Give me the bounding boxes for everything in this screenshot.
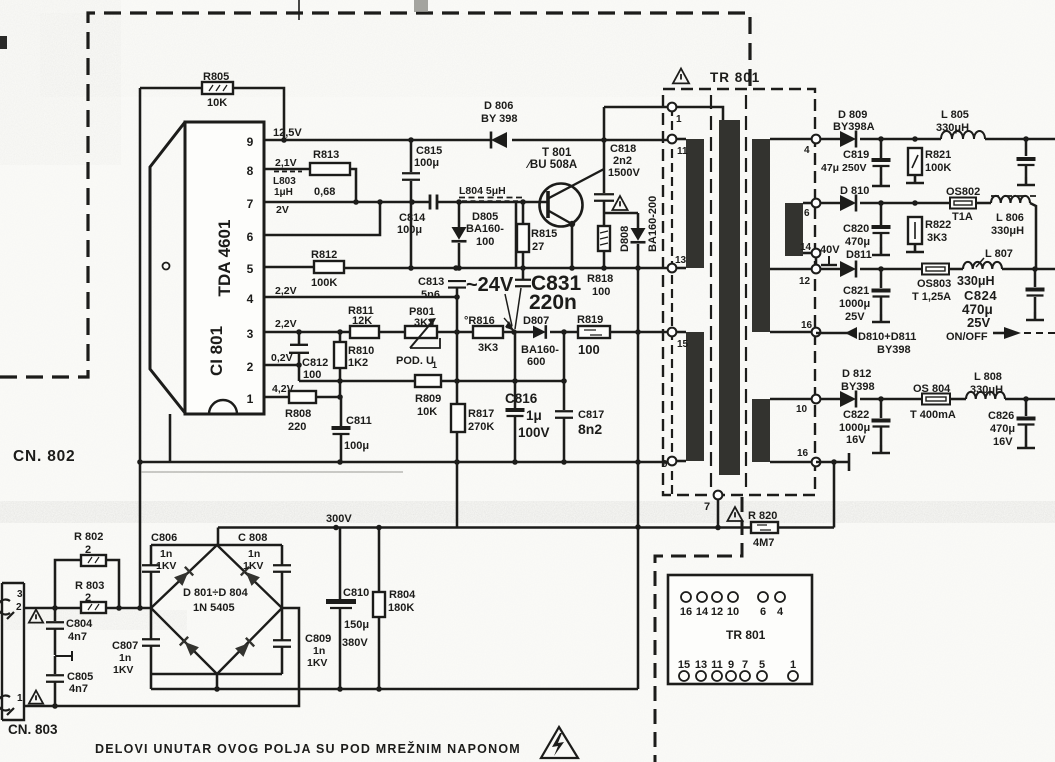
wire pin4	[264, 296, 457, 299]
svg-text:BY398A: BY398A	[833, 121, 875, 133]
svg-text:7: 7	[704, 501, 710, 513]
svg-text:2,2V: 2,2V	[275, 318, 297, 330]
svg-text:12: 12	[711, 606, 723, 618]
wire pin5 emitter rail	[264, 266, 314, 269]
resistor R817 270K	[451, 404, 465, 432]
svg-text:100: 100	[303, 369, 321, 381]
svg-text:9: 9	[662, 459, 668, 470]
svg-text:2: 2	[247, 360, 254, 374]
svg-text:L804 5μH: L804 5μH	[459, 185, 506, 197]
svg-text:5: 5	[759, 659, 765, 671]
svg-text:11: 11	[677, 146, 688, 157]
capacitor C820 470u	[880, 203, 883, 225]
junction	[878, 136, 884, 142]
wire emitter down	[571, 224, 574, 268]
fuse OS803 T1,25A	[922, 264, 949, 275]
wire feedback rail	[299, 380, 415, 383]
svg-text:1: 1	[432, 360, 437, 370]
svg-text:1KV: 1KV	[156, 560, 176, 572]
transformer left pin line dashed	[671, 107, 673, 495]
junction	[353, 199, 359, 205]
svg-text:150μ: 150μ	[344, 619, 369, 631]
svg-text:L 808: L 808	[974, 371, 1002, 383]
wire node14 to node12	[815, 253, 818, 269]
resistor R809 10K	[415, 375, 441, 387]
svg-text:T 1,25A: T 1,25A	[912, 291, 951, 303]
wire bridge bottom link	[151, 673, 282, 676]
svg-text:7: 7	[247, 197, 254, 211]
svg-text:4: 4	[247, 292, 254, 306]
svg-text:R805: R805	[203, 71, 229, 83]
svg-text:C813: C813	[418, 276, 444, 288]
svg-text:100K: 100K	[925, 162, 951, 174]
svg-text:100V: 100V	[518, 425, 550, 440]
diode D810	[820, 202, 840, 205]
svg-text:100μ: 100μ	[344, 440, 369, 452]
svg-text:CN. 803: CN. 803	[8, 722, 58, 737]
wire pin6	[264, 202, 380, 235]
svg-text:BA160-: BA160-	[466, 223, 504, 235]
svg-text:C824: C824	[964, 288, 997, 303]
wire pin9 12,5V rail	[264, 139, 491, 142]
svg-text:470μ: 470μ	[990, 423, 1015, 435]
svg-text:C815: C815	[416, 145, 442, 157]
wire mains input live	[24, 607, 81, 610]
svg-text:L 805: L 805	[941, 109, 969, 121]
resistor R811 12K	[350, 326, 379, 338]
svg-text:180K: 180K	[388, 602, 414, 614]
inductor L808 330uH	[966, 392, 1005, 399]
svg-text:12K: 12K	[352, 315, 372, 327]
svg-text:8n2: 8n2	[578, 421, 602, 437]
svg-text:100K: 100K	[311, 277, 337, 289]
wire collector node vertical	[603, 107, 606, 193]
svg-text:°R816: °R816	[464, 315, 495, 327]
bridge diode lower-right	[235, 638, 254, 657]
svg-text:R808: R808	[285, 408, 311, 420]
junction	[454, 378, 460, 384]
resistor R802 2	[55, 560, 81, 608]
svg-text:1KV: 1KV	[113, 664, 133, 676]
junction	[337, 378, 343, 384]
svg-text:25V: 25V	[845, 311, 865, 323]
svg-text:T1A: T1A	[952, 211, 973, 223]
svg-text:R813: R813	[313, 149, 339, 161]
junction	[281, 137, 287, 143]
svg-text:220: 220	[288, 421, 306, 433]
dashed border bottom segment	[655, 497, 742, 762]
capacitor C805 4n7	[54, 656, 57, 674]
resistor R816 3K3	[473, 326, 503, 338]
fuse OS804 T400mA	[922, 394, 950, 405]
svg-text:330μH: 330μH	[991, 225, 1024, 237]
bridge diode upper-right	[241, 567, 260, 586]
svg-text:2V: 2V	[276, 204, 289, 216]
svg-text:C821: C821	[843, 285, 869, 297]
junction	[408, 265, 414, 271]
svg-text:C811: C811	[346, 415, 372, 427]
warning triangle	[29, 610, 43, 623]
winding primary 15-9	[686, 332, 704, 461]
svg-text:1n: 1n	[119, 652, 131, 664]
scan noise band	[0, 503, 1055, 521]
diode D805 BA160-100 with box	[458, 202, 461, 227]
bridge diode upper-left	[174, 567, 193, 586]
resistor R812	[314, 261, 344, 273]
resistor R822 3K3	[908, 217, 922, 244]
resistor R813	[310, 163, 350, 175]
svg-text:3K3: 3K3	[478, 342, 498, 354]
svg-text:14: 14	[800, 242, 812, 253]
capacitor C812 100	[298, 332, 301, 344]
capacitor C808 1n 1KV	[281, 572, 284, 608]
warning triangle	[727, 507, 742, 521]
svg-text:T 400mA: T 400mA	[910, 409, 956, 421]
svg-text:2,2V: 2,2V	[275, 285, 297, 297]
svg-text:D811: D811	[846, 249, 872, 261]
capacitor C811 100u	[340, 397, 343, 426]
svg-text:3K3: 3K3	[414, 317, 434, 329]
svg-text:5: 5	[247, 262, 254, 276]
diode D811	[820, 268, 840, 271]
transformer pin nodes	[668, 103, 677, 112]
svg-text:270K: 270K	[468, 421, 494, 433]
warning triangle	[29, 691, 43, 704]
svg-text:11: 11	[711, 659, 723, 671]
svg-text:9: 9	[728, 659, 734, 671]
inductor L804 dashes	[459, 197, 525, 199]
wire ground rail	[140, 461, 672, 464]
junction	[52, 605, 58, 611]
svg-text:POD. U: POD. U	[396, 355, 434, 367]
winding secondary 6-14	[785, 203, 803, 256]
svg-text:C810: C810	[343, 587, 369, 599]
capacitor C823 output	[1025, 139, 1028, 156]
junction	[454, 294, 460, 300]
svg-text:2: 2	[85, 544, 91, 556]
resistor R818 100	[598, 226, 610, 251]
resistor R810 1K2	[339, 332, 342, 342]
svg-text:D 806: D 806	[484, 100, 513, 112]
svg-text:OS 804: OS 804	[913, 383, 951, 395]
svg-text:C805: C805	[67, 671, 93, 683]
svg-text:27: 27	[532, 241, 544, 253]
svg-text:1: 1	[247, 392, 254, 406]
svg-text:ON/OFF: ON/OFF	[946, 331, 988, 343]
svg-text:3: 3	[247, 327, 254, 341]
svg-text:100μ: 100μ	[414, 157, 439, 169]
mains-area dashed border	[0, 13, 750, 377]
svg-text:7: 7	[742, 659, 748, 671]
svg-text:BA160-200: BA160-200	[647, 196, 659, 252]
capacitor C821 1000u 25V	[880, 269, 883, 288]
svg-text:330μH: 330μH	[957, 274, 995, 288]
wire pin16 stub with arrow	[816, 332, 856, 335]
wire left vertical rail	[139, 88, 142, 608]
inductor L807 330uH	[963, 262, 1002, 269]
svg-text:1n: 1n	[160, 548, 172, 560]
capacitor C806 1n 1KV	[150, 572, 153, 608]
wire IC bottom to ground rail	[169, 414, 172, 462]
capacitor C816 1u 100V	[514, 332, 517, 408]
svg-text:1n: 1n	[313, 645, 325, 657]
chassis tick	[55, 655, 72, 657]
svg-text:1000μ: 1000μ	[839, 298, 870, 310]
svg-text:C804: C804	[66, 618, 93, 630]
resistor R804 180K	[378, 528, 381, 593]
svg-text:OS802: OS802	[946, 186, 980, 198]
transformer TR801 dashed box	[663, 89, 815, 495]
wire pin7 rail	[264, 201, 430, 204]
svg-text:10: 10	[727, 606, 739, 618]
transistor Q T801 BU508A	[540, 184, 583, 227]
svg-text:C820: C820	[843, 223, 869, 235]
resistor R820 4M7	[751, 522, 778, 533]
wire pin8	[264, 168, 310, 171]
svg-text:6: 6	[247, 230, 254, 244]
svg-text:C809: C809	[305, 633, 331, 645]
svg-text:2n2: 2n2	[613, 155, 632, 167]
svg-text:BA160-: BA160-	[521, 344, 559, 356]
capacitor C804 4n7	[54, 608, 57, 621]
junction	[333, 525, 339, 531]
svg-text:1K2: 1K2	[348, 357, 368, 369]
svg-text:C806: C806	[151, 532, 177, 544]
svg-text:40V: 40V	[820, 244, 840, 256]
svg-text:100: 100	[476, 236, 494, 248]
svg-text:0,68: 0,68	[314, 186, 335, 198]
svg-text:2: 2	[85, 592, 91, 604]
diode D806 BY398	[491, 132, 507, 148]
svg-text:CN. 802: CN. 802	[13, 448, 75, 465]
inductor L805 330uH	[941, 131, 985, 139]
svg-text:100: 100	[592, 286, 610, 298]
svg-text:CI 801: CI 801	[207, 326, 226, 376]
transformer core dashed lines	[710, 95, 712, 490]
svg-text:330μH: 330μH	[970, 384, 1003, 396]
resistor R819 100	[578, 326, 610, 338]
capacitor C810 150u 380V	[339, 528, 342, 600]
diode D807 BA160-600	[533, 326, 546, 339]
capacitor C826 470u 16V	[1025, 399, 1028, 416]
svg-text:13: 13	[675, 255, 687, 266]
svg-text:6: 6	[804, 208, 810, 219]
wire mains input neutral	[24, 608, 299, 706]
svg-text:3K3: 3K3	[927, 232, 947, 244]
capacitor C831 220n	[522, 268, 525, 279]
svg-text:16V: 16V	[846, 434, 866, 446]
svg-text:R 820: R 820	[748, 510, 777, 522]
junction	[52, 703, 58, 709]
svg-text:R817: R817	[468, 408, 494, 420]
svg-text:⁄BU 508A: ⁄BU 508A	[525, 159, 577, 171]
svg-text:1: 1	[676, 114, 682, 125]
capacitor C822 1000u 16V	[880, 399, 883, 418]
wire R805 loop	[140, 87, 202, 90]
svg-text:1: 1	[790, 659, 796, 671]
svg-text:25V: 25V	[967, 315, 990, 330]
svg-text:D805: D805	[472, 211, 498, 223]
svg-text:D808: D808	[619, 226, 631, 252]
svg-text:8: 8	[247, 164, 254, 178]
svg-text:1KV: 1KV	[307, 657, 327, 669]
svg-text:600: 600	[527, 356, 545, 368]
junction	[878, 396, 884, 402]
svg-text:4: 4	[777, 606, 784, 618]
svg-text:4M7: 4M7	[753, 537, 774, 549]
svg-text:380V: 380V	[342, 637, 368, 649]
svg-text:C819: C819	[843, 149, 869, 161]
warning triangle	[612, 196, 627, 210]
wire pin2	[264, 364, 299, 367]
svg-text:BY398: BY398	[877, 344, 911, 356]
svg-text:13: 13	[695, 659, 707, 671]
wire pin1 top link	[604, 106, 672, 109]
junction	[878, 266, 884, 272]
svg-text:R818: R818	[587, 273, 613, 285]
svg-text:10: 10	[796, 404, 808, 415]
capacitor C819 47u 250V	[880, 139, 883, 158]
svg-text:R809: R809	[415, 393, 441, 405]
svg-text:2: 2	[16, 602, 22, 613]
svg-text:1KV: 1KV	[243, 560, 263, 572]
connector CN.803	[2, 583, 24, 720]
wire pin3 rail	[264, 331, 350, 334]
svg-text:D810+D811: D810+D811	[858, 331, 916, 343]
diode D809 BY398A	[820, 138, 840, 141]
inductor L803 dashes	[274, 171, 302, 173]
svg-text:~24V: ~24V	[466, 274, 514, 296]
capacitor C807 1n 1KV	[150, 608, 153, 639]
svg-text:T 801: T 801	[542, 147, 572, 159]
wire 300V rail	[218, 526, 751, 529]
svg-text:D 812: D 812	[842, 368, 871, 380]
capacitor C814	[430, 195, 437, 210]
svg-text:BY398: BY398	[841, 381, 875, 393]
svg-text:TDA 4601: TDA 4601	[215, 220, 234, 297]
svg-text:100: 100	[578, 342, 600, 357]
svg-text:L 807: L 807	[985, 248, 1013, 260]
svg-text:R812: R812	[311, 249, 337, 261]
page stub line top	[298, 0, 300, 20]
svg-text:L803: L803	[273, 176, 296, 187]
resistor R821 100K	[908, 148, 922, 175]
svg-text:16V: 16V	[993, 436, 1013, 448]
svg-text:C816: C816	[505, 391, 538, 406]
svg-text:12: 12	[799, 276, 811, 287]
wire bridge top to 300V rail	[217, 528, 220, 546]
svg-text:C817: C817	[578, 409, 604, 421]
capacitor C813 5n6 and vertical	[448, 281, 466, 288]
junction	[137, 459, 143, 465]
wire pin1 into core	[672, 107, 723, 120]
junction	[454, 459, 460, 465]
svg-text:C812: C812	[302, 357, 328, 369]
svg-text:2,1V: 2,1V	[275, 157, 297, 169]
svg-text:D 810: D 810	[840, 185, 869, 197]
winding secondary 4-16	[752, 139, 770, 332]
svg-text:L 806: L 806	[996, 212, 1024, 224]
svg-text:DELOVI UNUTAR OVOG POLJA: DELOVI UNUTAR OVOG POLJA SU POD MREŽNIM …	[95, 741, 521, 756]
svg-text:C 808: C 808	[238, 532, 267, 544]
svg-text:C826: C826	[988, 410, 1014, 422]
svg-text:D 801÷D 804: D 801÷D 804	[183, 587, 249, 599]
svg-text:1N 5405: 1N 5405	[193, 602, 235, 614]
svg-text:47μ 250V: 47μ 250V	[821, 162, 867, 174]
svg-text:R815: R815	[531, 228, 557, 240]
svg-text:R804: R804	[389, 589, 416, 601]
svg-text:470μ: 470μ	[845, 236, 870, 248]
svg-text:16: 16	[797, 448, 809, 459]
svg-text:3: 3	[17, 589, 23, 600]
svg-text:1n: 1n	[248, 548, 260, 560]
capacitor C815 100u	[410, 140, 413, 172]
TR801 pinout box	[668, 575, 812, 684]
bridge rectifier D801-D804 1N5405 diamond	[151, 545, 282, 674]
svg-text:TR 801: TR 801	[710, 70, 760, 85]
svg-text:C807: C807	[112, 640, 138, 652]
svg-text:R819: R819	[577, 314, 603, 326]
junction	[337, 459, 343, 465]
svg-text:C818: C818	[610, 143, 636, 155]
wire bridge top link	[151, 544, 282, 547]
svg-text:10K: 10K	[417, 406, 437, 418]
fuse OS802 T1A	[950, 198, 976, 209]
svg-text:100μ: 100μ	[397, 224, 422, 236]
potentiometer P801 3K3 POD.U1	[405, 326, 437, 338]
svg-text:R 803: R 803	[75, 580, 104, 592]
wire R820 right riser	[833, 462, 836, 528]
svg-text:12,5V: 12,5V	[273, 127, 302, 139]
svg-text:R821: R821	[925, 149, 951, 161]
capacitor C809 1n 1KV	[281, 608, 284, 640]
svg-text:R822: R822	[925, 219, 951, 231]
svg-text:OS803: OS803	[917, 278, 951, 290]
svg-text:1: 1	[17, 693, 23, 704]
resistor R805	[202, 82, 233, 94]
bridge diode lower-left	[180, 637, 199, 656]
diode D808 BA160-200	[631, 228, 646, 241]
capacitor C818 2n2 1500V	[594, 194, 614, 201]
wire pin1	[264, 396, 289, 399]
svg-text:9: 9	[247, 135, 254, 149]
svg-text:1500V: 1500V	[608, 167, 640, 179]
svg-text:TR 801: TR 801	[726, 628, 766, 642]
svg-text:BY 398: BY 398	[481, 113, 518, 125]
wire D808 long vertical	[637, 268, 640, 689]
svg-text:C822: C822	[843, 409, 869, 421]
capacitor C817 8n2	[563, 332, 566, 410]
op-amp U1 IC CI801 TDA4601 body	[185, 122, 264, 414]
svg-text:D807: D807	[523, 315, 549, 327]
svg-text:16: 16	[801, 320, 813, 331]
svg-text:1000μ: 1000μ	[839, 422, 870, 434]
wire ground return rail	[151, 688, 638, 691]
TR801 title and warning	[673, 69, 689, 84]
wire pin16 lower stub	[816, 461, 849, 464]
junction	[878, 200, 884, 206]
junction	[214, 686, 220, 692]
svg-text:16: 16	[680, 606, 692, 618]
svg-text:5n6: 5n6	[421, 289, 440, 301]
svg-text:1μ: 1μ	[526, 408, 542, 423]
svg-text:4n7: 4n7	[69, 683, 88, 695]
winding core bar	[719, 120, 740, 475]
svg-text:1μH: 1μH	[274, 187, 293, 198]
svg-text:R810: R810	[348, 345, 374, 357]
svg-text:220n: 220n	[529, 291, 577, 314]
svg-text:4n7: 4n7	[68, 631, 87, 643]
